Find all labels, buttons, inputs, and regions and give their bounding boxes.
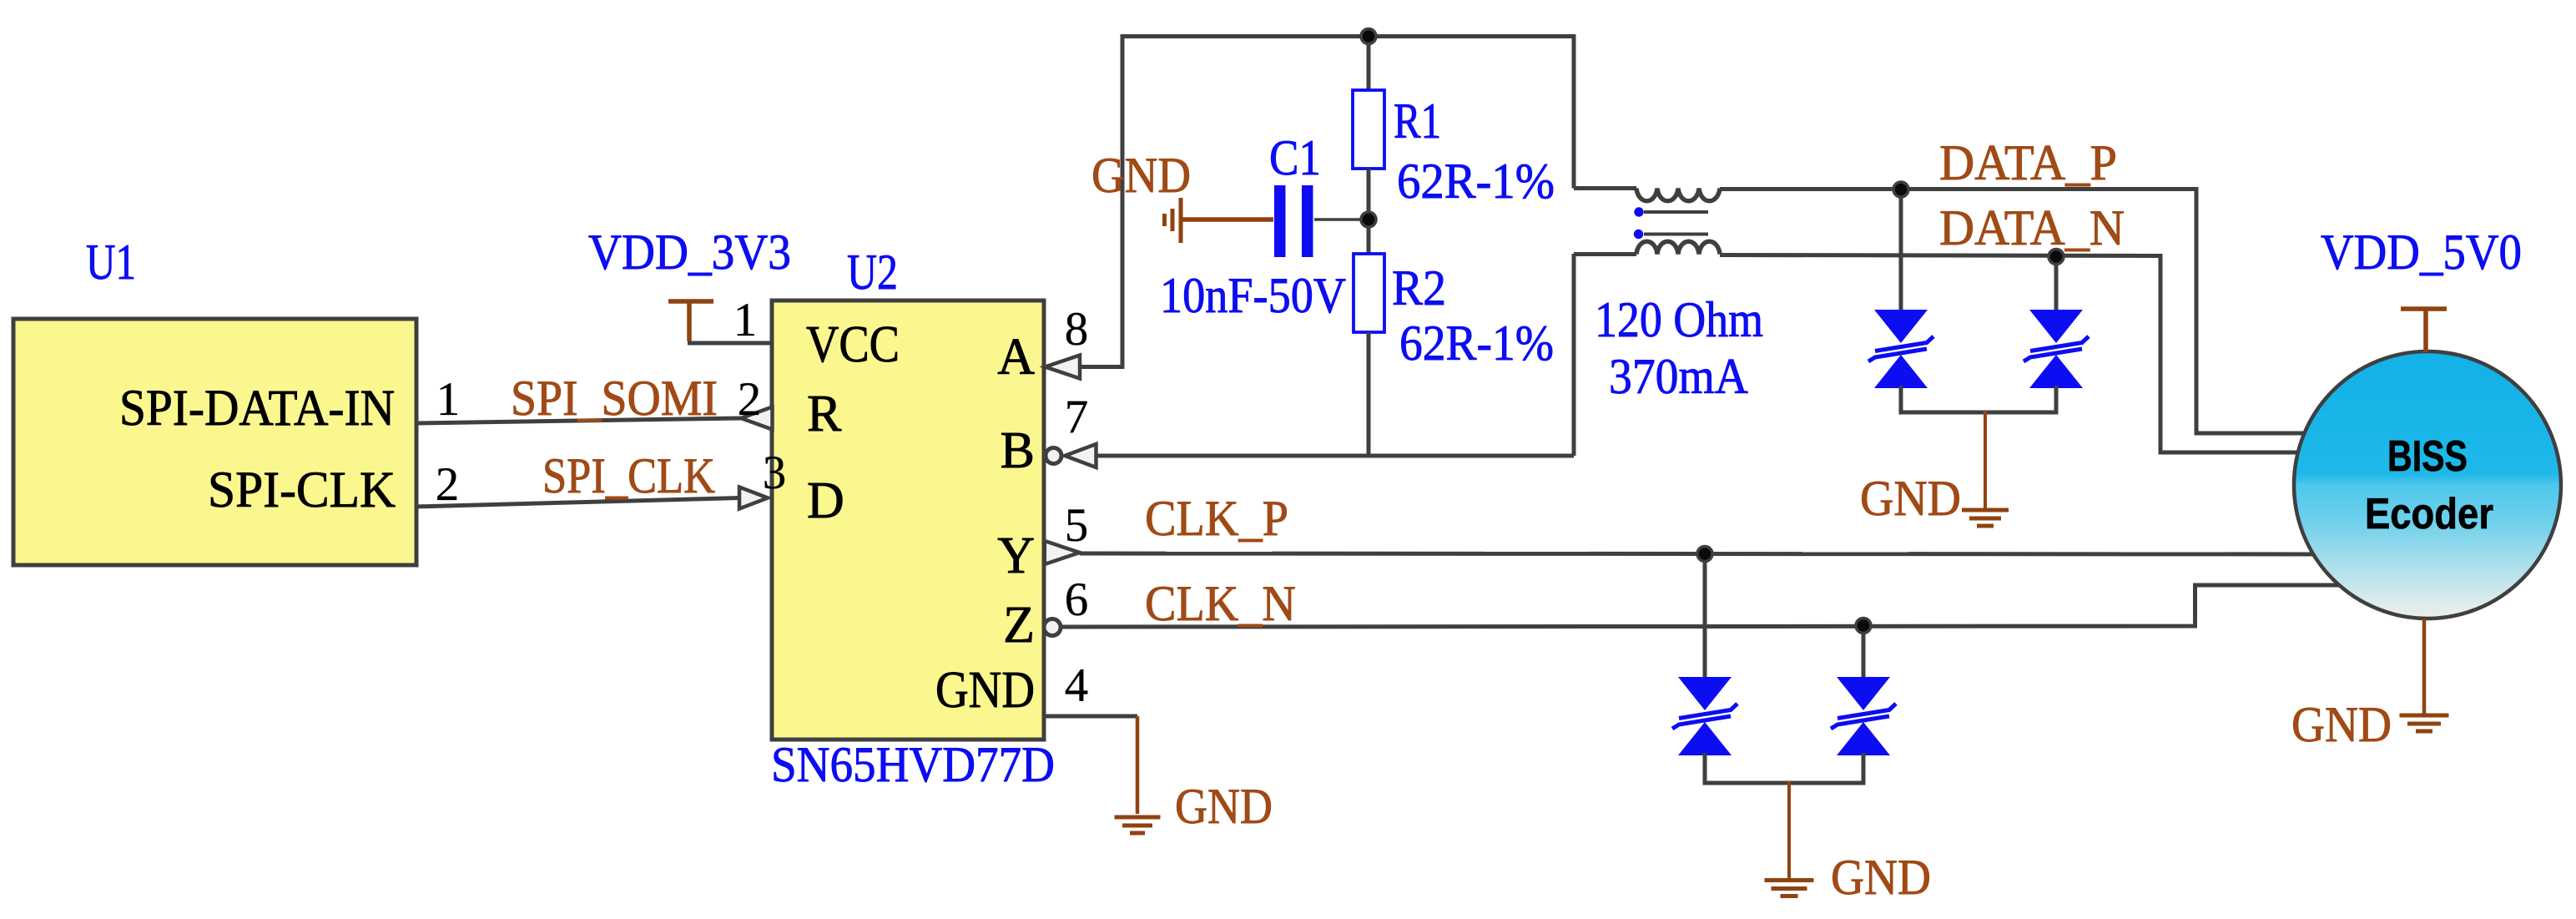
wire primary left terminal <box>1574 186 1636 190</box>
U2 pin 3 input arrow <box>739 487 768 509</box>
svg-text:VDD_3V3: VDD_3V3 <box>588 225 791 280</box>
svg-text:U2: U2 <box>847 245 898 300</box>
wire D1 to gnd bus <box>1899 386 1903 412</box>
wire R2 bottom to B net <box>1367 332 1371 456</box>
svg-text:Y: Y <box>997 528 1035 584</box>
wire R1 bottom to node <box>1367 169 1371 220</box>
junction node C1/R1/R2 <box>1361 212 1376 227</box>
wire gnd stem DATA diodes <box>1984 411 1987 508</box>
power symbol VDD_5V0 <box>2401 306 2447 311</box>
wire B net <box>1096 454 1575 458</box>
BISS encoder circle <box>2294 351 2561 619</box>
svg-text:GND: GND <box>935 662 1035 719</box>
wire U2 pin 4 <box>1044 714 1137 719</box>
IC U2 box <box>772 300 1044 740</box>
junction node CLK_N <box>1856 619 1871 634</box>
svg-text:3: 3 <box>763 447 787 499</box>
U2 pin 6 bubble <box>1044 619 1061 636</box>
svg-text:370mA: 370mA <box>1609 349 1748 404</box>
IC U1 box <box>13 319 416 565</box>
transformer polarity dot top <box>1634 207 1643 216</box>
wire R1 top stub <box>1367 37 1371 93</box>
svg-text:GND: GND <box>1860 471 1961 526</box>
svg-text:B: B <box>1001 422 1035 479</box>
wire C1 right plate to node <box>1314 218 1369 221</box>
svg-text:VCC: VCC <box>806 316 900 373</box>
wire secondary left terminal <box>1574 252 1636 256</box>
svg-text:Z: Z <box>1003 597 1035 654</box>
wire CLK_N net <box>1061 585 2339 627</box>
wire D2 to gnd bus <box>2054 386 2059 412</box>
svg-text:SPI-DATA-IN: SPI-DATA-IN <box>119 381 395 437</box>
wire DATA_N to TVS D2 <box>2054 257 2059 311</box>
resistor R1 <box>1353 90 1384 169</box>
svg-text:7: 7 <box>1065 391 1089 443</box>
svg-text:8: 8 <box>1065 303 1089 356</box>
svg-text:GND: GND <box>1091 148 1191 203</box>
svg-text:GND: GND <box>1175 779 1273 834</box>
transformer T1 primary winding <box>1636 189 1720 201</box>
U2 pin 7 arrow <box>1065 444 1096 467</box>
junction node DATA_N <box>2049 250 2064 265</box>
svg-text:SPI_SOMI: SPI_SOMI <box>511 371 718 426</box>
wire gnd stem CLK diodes <box>1787 781 1791 879</box>
wire encoder gnd stem <box>2422 619 2427 714</box>
wire SPI_SOMI net <box>415 418 741 423</box>
svg-text:2: 2 <box>436 458 460 511</box>
svg-text:GND: GND <box>2291 697 2392 752</box>
ground GND at U2 <box>1115 815 1161 820</box>
capacitor C1 <box>1274 185 1286 257</box>
svg-text:1: 1 <box>436 373 461 426</box>
svg-text:A: A <box>997 329 1035 386</box>
svg-text:6: 6 <box>1065 573 1089 626</box>
wire B net riser <box>1572 254 1576 456</box>
svg-text:R2: R2 <box>1392 260 1446 316</box>
svg-text:D: D <box>807 472 844 529</box>
wire CLK_P to TVS D3 <box>1703 554 1707 679</box>
svg-text:VDD_5V0: VDD_5V0 <box>2321 225 2522 280</box>
transformer polarity dot bottom <box>1634 230 1643 239</box>
transformer core lines <box>1644 210 1708 214</box>
svg-text:GND: GND <box>1831 850 1931 905</box>
wire TVS gnd bus CLK <box>1703 781 1866 785</box>
svg-text:R1: R1 <box>1394 93 1441 149</box>
ground GND at encoder <box>2400 714 2449 718</box>
svg-text:1: 1 <box>733 294 758 346</box>
ground GND at C1 (rotated) <box>1179 198 1183 243</box>
svg-text:SPI-CLK: SPI-CLK <box>208 462 396 518</box>
junction node R1 top <box>1361 29 1376 44</box>
TVS diode D2 <box>2029 310 2083 343</box>
TVS diode D1 <box>1874 310 1928 343</box>
wire GND to C1 left plate <box>1182 217 1273 222</box>
svg-text:C1: C1 <box>1269 130 1321 185</box>
power symbol VDD_3V3 <box>668 299 713 304</box>
U2 pin 5 arrow <box>1045 541 1080 564</box>
svg-text:5: 5 <box>1065 499 1089 552</box>
svg-text:DATA_N: DATA_N <box>1939 200 2125 255</box>
wire DATA_P net <box>1720 189 2306 434</box>
wire TVS gnd bus DATA <box>1899 411 2059 415</box>
svg-text:CLK_N: CLK_N <box>1145 576 1296 631</box>
wire node to R2 top <box>1367 220 1371 255</box>
wire pin8 to R1 top <box>1080 37 1574 367</box>
svg-text:Ecoder: Ecoder <box>2365 490 2493 538</box>
wire CLK_P net <box>1080 553 2313 554</box>
U2 pin 2 input arrow <box>741 407 773 430</box>
svg-text:SN65HVD77D: SN65HVD77D <box>771 737 1055 792</box>
svg-text:120 Ohm: 120 Ohm <box>1595 292 1763 347</box>
svg-text:U1: U1 <box>86 235 136 290</box>
svg-text:BISS: BISS <box>2387 432 2468 481</box>
svg-text:R: R <box>807 386 842 442</box>
svg-text:4: 4 <box>1065 659 1089 712</box>
TVS diode D4 <box>1837 677 1890 710</box>
U2 pin 7 bubble <box>1046 448 1061 464</box>
svg-text:SPI_CLK: SPI_CLK <box>542 448 715 503</box>
TVS diode D3 <box>1678 677 1732 710</box>
svg-text:10nF-50V: 10nF-50V <box>1160 268 1346 323</box>
wire D4 to gnd bus <box>1862 753 1866 783</box>
ground GND at DATA diodes <box>1962 508 2009 513</box>
wire DATA_N net <box>1720 255 2301 453</box>
wire VCC pin 1 <box>688 341 772 346</box>
svg-text:62R-1%: 62R-1% <box>1397 154 1555 209</box>
junction node CLK_P <box>1697 547 1712 562</box>
wire CLK_N to TVS D4 <box>1862 626 1866 679</box>
transformer T1 secondary winding <box>1636 241 1720 254</box>
wire D3 to gnd bus <box>1703 753 1707 783</box>
svg-text:CLK_P: CLK_P <box>1145 491 1288 546</box>
wire gnd stem U2 <box>1136 716 1140 814</box>
junction node DATA_P <box>1893 182 1908 197</box>
svg-text:2: 2 <box>738 373 762 426</box>
U2 pin 8 arrow <box>1046 356 1081 379</box>
wire DATA_P to TVS D1 <box>1899 189 1903 311</box>
wire SPI_CLK net <box>415 498 739 507</box>
svg-text:DATA_P: DATA_P <box>1939 135 2117 190</box>
ground GND at CLK diodes <box>1765 878 1814 882</box>
resistor R2 <box>1354 254 1384 332</box>
svg-text:62R-1%: 62R-1% <box>1399 316 1554 371</box>
